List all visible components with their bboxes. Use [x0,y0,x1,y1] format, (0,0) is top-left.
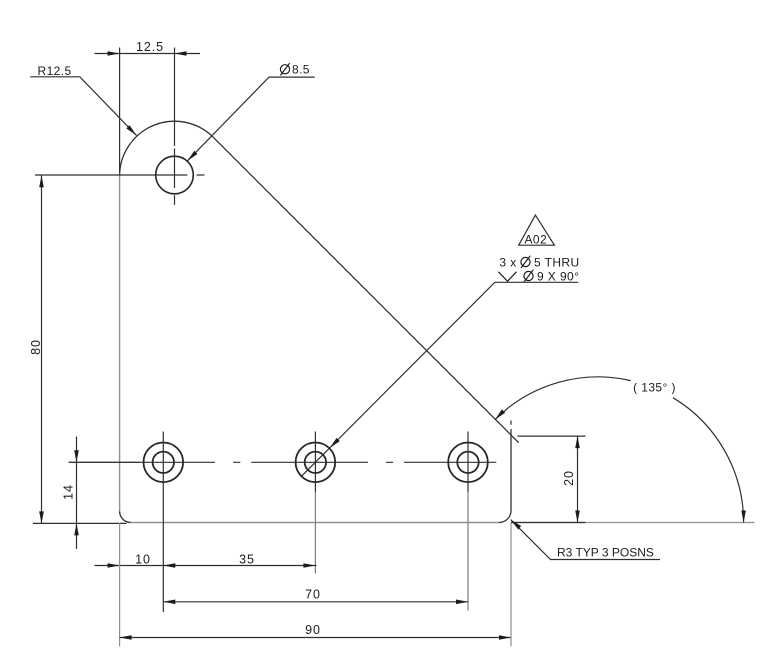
note line 2: csk dia 9 X 90 [524,270,533,282]
bottom hole 3 inner circle dia 5 [457,452,478,473]
leader dia 8.5 diameter symbol [280,63,289,75]
flag note triangle [519,215,555,245]
svg-text:20: 20 [562,470,576,486]
leader dia 8.5 underline and diagonal [187,77,314,161]
dim 70 dimension line [163,601,468,603]
top hole circle dia 8.5 [156,156,194,194]
angle 135 dimension arc (left part) [495,377,631,420]
dim 70 left arrowhead [163,600,175,605]
dim 12.5 extension line left (plate edge extended up) [119,48,121,173]
dim 14 top arrowhead (pointing down) [74,450,79,462]
svg-text:35: 35 [239,553,255,567]
dim 20 bottom arrowhead [575,511,580,523]
leader R12.5 arrowhead [126,125,136,135]
bottom hole 2 outer circle dia 9 csk [296,443,336,483]
dim 35 right arrowhead (pointing right) [303,563,315,568]
dim 12.5 dimension line with outside arrows [95,53,201,55]
dim 20 bottom extension line (dark overlap) [511,522,586,524]
dim 10 left outside arrowhead (pointing right) [108,563,120,568]
plate top-left corner arc R12.5 [120,121,214,175]
dim 20 top arrowhead [575,436,580,448]
hole 1 vertical center line / extension [162,432,164,613]
angle 135 left arrowhead (pointing down-left along diagonal) [495,409,505,419]
plate bottom-right fillet R3 [499,511,511,523]
svg-text:R3 TYP 3 POSNS: R3 TYP 3 POSNS [557,546,654,560]
dim 90 left arrowhead [120,635,132,640]
svg-text:( 135° ): ( 135° ) [633,381,676,395]
leader R12.5 underline and diagonal [30,77,136,136]
dim 90 dimension line [120,637,511,639]
right plate edge extension down (gray) [510,523,512,647]
dim 35 left arrowhead (pointing left) [163,563,175,568]
dim 80 dimension line [41,175,43,523]
svg-text:14: 14 [62,484,76,500]
top hole horizontal center line + 80 dim extension [35,174,204,176]
dim 14 top extension line (hole row line) [69,461,140,463]
svg-text:3 x: 3 x [499,255,516,269]
plate bottom edge extension right (for 20 and 135 dims) [511,522,755,524]
svg-text:12.5: 12.5 [136,40,164,54]
leader dia 8.5 arrowhead [187,151,197,161]
plate diagonal edge [213,137,519,443]
svg-text:80: 80 [29,339,43,355]
svg-text:70: 70 [305,588,321,602]
bottom hole 1 outer circle dia 9 csk [144,443,184,483]
dim 80 top arrowhead [39,175,44,187]
hole 2 vertical center line / extension [314,432,316,493]
dim 12.5 right arrowhead [175,51,187,56]
dim 10 / 35 dimension line [95,565,317,567]
plate bottom edge [131,522,499,524]
dim 20 top extension line [518,435,586,437]
dim 80 bottom arrowhead [39,511,44,523]
svg-text:9 X 90°: 9 X 90° [537,269,579,283]
plate left edge [119,175,121,512]
note leader underline and diagonal through hole 2 [301,282,578,476]
dim 70 right arrowhead [456,600,468,605]
svg-text:R12.5: R12.5 [38,64,72,78]
note countersink symbol [499,272,517,282]
angle 135 extension dash-dot above corner [510,421,512,437]
dim 90 right arrowhead [499,635,511,640]
holes horizontal center line with dash pattern [69,461,497,463]
leader R3 arrowhead [511,520,522,530]
plate bottom-left fillet R3 [120,512,131,523]
dim 20 dimension line [577,436,579,522]
bottom hole 2 inner circle dia 5 [305,452,326,473]
top hole vertical center line [174,48,176,205]
plate right edge [510,436,512,510]
angle 135 right arrowhead (pointing down) [741,511,746,523]
svg-text:8.5: 8.5 [292,63,310,77]
svg-text:10: 10 [135,553,151,567]
left plate edge extension down (gray) [119,523,121,647]
hole 3 vertical center line / extension [467,432,469,493]
angle 135 dimension arc (right part) [673,398,744,523]
dim 14 dimension line [76,437,78,550]
svg-text:5 THRU: 5 THRU [534,255,580,269]
svg-text:A02: A02 [525,232,548,246]
note leader arrowhead at hole 2 [330,438,340,448]
svg-text:90: 90 [305,623,321,637]
leader R3 underline and diagonal [511,520,660,560]
dim 14 bottom arrowhead (pointing up) [74,523,79,535]
bottom hole 1 inner circle dia 5 [153,452,174,473]
dim 80 bottom extension line [33,522,127,524]
bottom hole 3 outer circle dia 9 csk [448,443,488,483]
dim 12.5 left arrowhead [108,51,120,56]
